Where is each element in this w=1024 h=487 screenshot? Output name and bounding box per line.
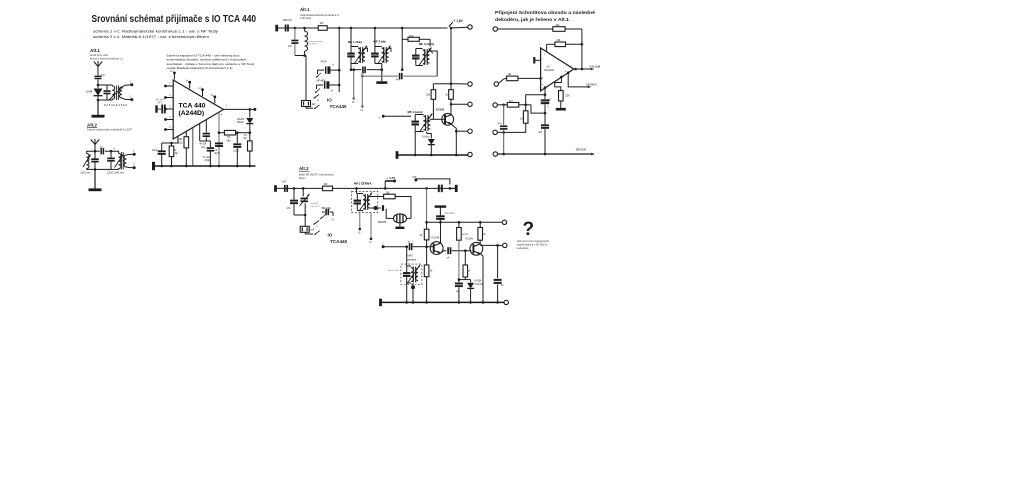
transformer TR1 core [117,86,119,101]
wire cap to node [97,80,100,87]
transistor Q1 KC508 [436,108,454,126]
0u5 branch [413,176,450,185]
svg-text:Alt.2: Alt.2 [87,123,97,128]
op-amp U2 triangle [541,48,574,91]
terminal T1 Alt1 [468,25,472,29]
Alt2 input bottom wire [294,214,307,217]
svg-text:Připojení Schmittova obvodu a: Připojení Schmittova obvodu a následně [495,10,595,15]
Alt2 ground rail [381,299,504,307]
svg-text:MC845/A: MC845/A [587,83,598,86]
svg-text:(4u7): (4u7) [214,153,220,155]
TR2 winding notes [81,172,125,175]
capacitor at U1 pin3 [156,100,165,114]
transformer TR1 secondary [120,85,132,100]
U1 top pin 12 [211,95,217,103]
svg-text:+ 4,5V: + 4,5V [387,176,396,180]
output right vertical [581,29,584,69]
terminal T5 Alt1 [468,152,472,156]
MF1c output dot [370,205,383,211]
transistor Q2 KC548 [430,237,443,255]
top loop wire over MF3 [401,28,430,71]
IF transformer MF3 cerny [412,42,434,66]
MF1 cerna label [354,180,372,185]
gray stub pin12 [360,75,363,112]
Alt.1 small note line2 [90,57,123,60]
terminal S2 [494,82,498,86]
svg-text:Alt.1: Alt.1 [300,7,310,12]
TCA440 note paragraph line2 [167,58,247,62]
Q2 emitter wire [441,251,447,253]
feedback resistor 15k [547,39,582,47]
ground A2 [89,188,102,191]
crystal X2 [300,215,315,234]
svg-text:Srovnání schémat přijímače s I: Srovnání schémat přijímače s IO TCA 440 [92,14,257,25]
svg-text:feritová: feritová [311,202,319,205]
MF2 bottom dot [411,283,415,302]
rail to terminal [451,26,468,29]
wire S3 right [497,104,507,107]
Q1 base wire [430,118,446,120]
filter ground [395,224,404,228]
capacitor tank2 [107,151,115,169]
wire cap2 left stub [315,85,320,93]
terminal A2T2 [498,243,507,247]
varicap Alt2 [300,188,321,215]
question note3 [517,247,530,250]
IF transformer MF1c [354,188,372,211]
U1 left pin 1 [164,84,173,88]
svg-text:KA206: KA206 [475,280,483,283]
svg-text:feritová anténa podle modelář: feritová anténa podle modelářské A 1/197… [87,129,133,132]
terminal A2T1 [502,220,506,224]
svg-text:(10k): (10k) [205,160,210,162]
terminal T2 Alt1 [457,82,472,86]
svg-text:1uF: 1uF [312,104,317,106]
svg-text:4n7: 4n7 [396,79,401,82]
cap MR100 Alt2 [320,208,334,222]
svg-text:455 kHz: 455 kHz [283,19,293,22]
question note2 [517,243,549,246]
noninv pin stub [542,84,547,96]
Q3 emitter down [480,254,483,303]
terminal S1 [493,27,497,31]
svg-text:IO: IO [547,65,550,68]
wire tank bottoms [95,168,111,170]
input terminal bar Alt1 [275,25,278,32]
U1 left pin 3 [164,107,173,111]
pin2 stub wire [382,244,408,249]
svg-text:IO: IO [328,232,333,237]
svg-text:47uF: 47uF [321,60,327,64]
capacitor MF cap2 [317,80,341,92]
wire resistors top [433,83,457,86]
svg-text:47p: 47p [288,45,293,48]
svg-text:MF 4 černý: MF 4 černý [408,110,423,114]
resistor 22k [555,76,570,101]
svg-text:4n-10n: 4n-10n [203,157,211,159]
Alt.2 big note1 [299,174,334,177]
IF transformer MF4 cerny [408,110,433,132]
input cap Alt2 [282,180,287,192]
Alt.1 big note1 [300,14,340,17]
Q2 base [427,244,434,253]
svg-text:9+7,5 mm 6+7,5 mm: 9+7,5 mm 6+7,5 mm [104,104,127,107]
supply drop wire [450,27,453,84]
Schmitt header line2 [495,17,569,22]
svg-text:KC84x: KC84x [466,237,474,240]
svg-text:Alt.2: Alt.2 [299,166,309,171]
pin arrow crystal2 [314,105,320,109]
MF2 transformer [388,247,420,284]
filter in wire [386,209,392,219]
pin arrows Alt2 [314,221,320,235]
svg-text:(B): (B) [244,137,247,140]
svg-text:s NF Tesly: s NF Tesly [300,17,312,20]
cap 44n antenna-like [435,207,456,223]
resistor R1 1k [169,142,178,166]
res bottom to S4 [497,123,525,134]
transformer TR2 secondary [124,154,134,168]
emitter resistor Q3 [463,251,471,280]
svg-text:455 kHz: 455 kHz [156,100,165,102]
series cap 1n [408,242,428,251]
svg-text:4k7: 4k7 [509,100,514,103]
pin15 stub Alt2 [358,213,361,235]
svg-text:feritovou anténu konstrukce L: feritovou anténu konstrukce L1 [90,57,123,60]
resistor 12k input [499,73,545,83]
svg-text:SFE455: SFE455 [378,221,387,224]
MF3 right wire [429,49,438,77]
resistor mid vertical [520,105,528,123]
resistor R2 10k [179,131,189,166]
svg-text:nezkoušejn: nezkoušejn [517,247,530,250]
subtitle bullet [86,34,87,38]
input shunt cap Alt1 [288,28,298,56]
svg-text:4k2: 4k2 [556,24,561,27]
terminal S5 [493,152,497,156]
svg-text:MFG: MFG [158,102,163,104]
input shunt cap Alt2 [287,188,299,215]
svg-text:ladí na 455: ladí na 455 [388,270,400,272]
wire input bottom [295,55,305,57]
svg-text:4u7: 4u7 [548,98,553,101]
wire resistor to filter [395,197,411,219]
wire antenna to cap [97,72,99,75]
diode D4 [467,280,483,303]
Alt.2 small note [87,129,133,132]
diode D1 1N48 [86,85,103,100]
antenna A1 [94,61,102,72]
terminal T4 Alt1 [456,129,472,133]
supply rail Alt1 [280,27,448,30]
svg-text:(1k): (1k) [174,152,178,155]
MF1 bottom wire [350,64,355,71]
terminal out1 A1 [130,81,133,87]
jog to 4u7 node [531,105,545,113]
Q3 collector resistor [478,222,487,244]
TR1 winding note [104,104,127,107]
antenna A2 [91,139,99,150]
wire U1 pin10 [200,124,207,141]
svg-text:KA2xx: KA2xx [423,136,431,139]
svg-text:100k: 100k [409,36,415,38]
Q1 collector wire [450,104,452,114]
wire pin6 to left [524,95,545,106]
Alt.1 small note line1 [90,54,109,57]
U1 left pin 5 [164,127,173,131]
svg-text:22K: 22K [565,95,570,98]
svg-text:47uF,16: 47uF,16 [475,284,484,286]
input coil Alt1 [303,28,323,57]
pin2 stub with bar [534,57,543,63]
wire drop x339 [338,28,340,92]
resistor R10 on rail [318,23,327,30]
svg-text:KC548: KC548 [432,237,440,240]
svg-text:1uF: 1uF [310,230,315,232]
capacitor C10 10uF [152,143,166,166]
coupling cap MF1-MF2 [351,66,382,75]
node under emitter res [458,278,471,281]
svg-text:10n: 10n [538,131,543,134]
svg-text:S/N:26dB: S/N:26dB [590,66,601,69]
wire 47uF left [316,70,321,77]
svg-text:filtrem: filtrem [299,177,306,180]
svg-text:2x12 mm: 2x12 mm [81,172,91,175]
resistor S3 [507,100,531,107]
U1 output wire pin7 [224,105,257,111]
coil L2 tank2 [111,148,121,170]
opamp output node [570,65,586,70]
svg-text:ant. 4x7?: ant. 4x7? [311,205,321,208]
svg-text:44n-100n: 44n-100n [445,213,455,215]
resistor rail Alt2 [323,184,333,191]
wire node to ground A1 [97,100,99,115]
capacitor C13 on pin9 wire [214,143,223,155]
svg-text:TCA440: TCA440 [330,239,348,244]
Alt1 ground rail [397,151,468,159]
terminal S3 [493,103,497,107]
diode D3 KA206 [423,136,435,155]
right cap to rail [494,245,505,302]
svg-text:GA201: GA201 [237,118,245,121]
capacitor C14 [233,133,241,166]
svg-text:MAA435: MAA435 [544,69,554,72]
subtitle line 2 [93,35,209,39]
cap to rail [455,280,463,303]
U1 top pin 16 [170,71,176,79]
crystal X1 455 [302,56,317,109]
svg-text:MF2: MF2 [408,254,414,258]
svg-text:dle RK L1: dle RK L1 [309,44,319,46]
terminal out2 A2 [133,163,136,169]
resistor x5k [370,192,395,199]
Alt.1 big note2 [300,17,312,20]
svg-text:10/100: 10/100 [462,234,469,236]
MF1 cerna dashed box [352,191,378,212]
IF transformer MF1 zluty [347,28,367,64]
feedback stub to opamp [544,44,546,56]
MF4 pin7 wire [379,115,411,120]
pin arrow crystal [314,95,320,102]
capacitor C2 shunt [97,85,111,101]
transformer TR2 core [121,152,123,170]
output2 wire [565,71,584,87]
supply label +1.8V [449,19,464,27]
output arrow 1 [587,66,601,71]
svg-text:47p: 47p [101,74,106,77]
svg-text:MF-460k: MF-460k [317,80,327,82]
svg-text:TCA 440: TCA 440 [179,103,206,110]
IO TCA440 label Alt2 [328,232,348,244]
Q1 emitter wire [452,124,458,155]
terminal A2T3 [504,300,508,304]
resistor R12 1k [445,84,453,106]
supply stub +4.5V [385,176,396,188]
terminal out2 A1 [130,95,133,101]
capacitor C11 [200,120,211,149]
svg-text:IO: IO [327,98,332,103]
svg-text:MF1 ČERNÁ: MF1 ČERNÁ [354,180,372,185]
transistor Q3 KC84x [466,237,483,255]
diode D2 GA201 [237,109,253,132]
U1 left pin 4 [164,117,173,121]
subtitle line 1 [93,29,218,33]
top wire with resistor 4k2 [498,24,582,32]
question mark [523,219,535,240]
svg-text:MF 1 žlutý: MF 1 žlutý [348,40,362,44]
svg-text:·: · [86,34,87,38]
mid horiz wire Alt2 [427,221,503,224]
22k ground [556,101,566,109]
series cap x4 [447,247,472,259]
TCA440 note paragraph line1 [167,54,240,58]
capacitor C1 series [95,74,106,79]
svg-text:?: ? [523,219,535,240]
MF2 label [407,254,417,262]
svg-text:MF 3 černý: MF 3 černý [419,42,434,46]
left vertical with cap [498,105,507,154]
U1 top pin 14 [185,80,191,88]
Alt.1 big label [300,7,310,12]
svg-text:4k-10k: 4k-10k [200,144,208,146]
svg-text:1N48: 1N48 [86,90,93,94]
MF4 bottom wires [415,132,431,156]
Schmitt bottom rail arrow [498,149,594,156]
L2 trimmer arrow [115,154,124,168]
Alt.2 big label [299,166,310,171]
svg-text:schéma 2 v č. Materiál A 1/197: schéma 2 v č. Materiál A 1/1977 - var. s… [93,35,209,39]
Alt2 rail [276,187,457,190]
svg-text:schéma 1 v č. Radioamatérské k: schéma 1 v č. Radioamatérské konstrukce … [93,29,218,33]
wire U1 pin9 gray [219,112,223,166]
svg-text:+: + [548,105,550,109]
svg-text:podle Radioamatérských konstru: podle Radioamatérských konstrukcí L1) [167,66,233,70]
svg-text:(střední): (střední) [407,257,417,261]
svg-text:(9k): (9k) [227,139,231,142]
cap 10n [538,113,549,154]
svg-text:(10u): (10u) [234,150,240,152]
svg-text:+ 1,8V: + 1,8V [454,19,464,23]
MF2 bottom ground [376,64,387,83]
svg-text:+: + [332,63,334,67]
mid resistor col [457,222,469,279]
svg-text:(4n): (4n) [201,147,205,149]
IO TCA440 label Alt1 [327,98,347,110]
wire to ground A2 [94,169,96,188]
input terminal bar Alt2 [274,185,277,192]
svg-text:feritová anténa: feritová anténa [309,40,324,43]
capacitor 47uF [318,60,341,74]
filter out wire [408,217,411,219]
svg-text:(A244D): (A244D) [179,110,205,117]
resistor R3 77k horizontal [218,130,251,142]
resistor R4 4k5 [244,133,253,166]
svg-text:12x12 3x42 mm: 12x12 3x42 mm [107,172,124,175]
resistor 4k base [420,222,429,246]
svg-text:u47: u47 [282,180,287,183]
transformer TR1 primary [98,85,115,100]
Q3 collector node wire [480,244,499,247]
svg-text:TCA440: TCA440 [330,104,348,109]
svg-text:Alt.1: Alt.1 [90,48,100,53]
capacitor C12 [203,141,214,166]
input coupling cap Alt1 [277,19,295,31]
svg-text:KC508: KC508 [436,108,445,112]
gray stub pin15 [352,68,355,104]
U1 left pin 2 [164,95,173,99]
op-amp style block U1 TCA440 triangle [173,80,223,139]
coil L1 tank1 [87,151,95,169]
svg-text:MR-100p: MR-100p [322,208,332,210]
MF2 left bottom wire [406,283,408,302]
cap 4u7 [541,95,552,115]
U1 top pin 13 [198,88,204,96]
TR1 trimmer arrow [109,87,123,101]
long wire 4n7 [362,73,437,82]
Alt.2 small label [87,123,97,128]
terminal S4 [493,130,497,134]
output arrow 2 [584,83,597,88]
TCA440 rail junctions [160,165,251,168]
wire U1 pin8 to rail [192,128,194,166]
drop wire x427 [425,188,428,223]
TCA440 note paragraph line4 [167,66,233,70]
svg-text:dekodéru, jak je řešeno v Alt.: dekodéru, jak je řešeno v Alt.1 [495,17,569,22]
svg-text:MF 2 bílý: MF 2 bílý [374,40,387,44]
terminal T3 Alt1 [451,102,472,106]
ground A1 [92,115,105,118]
Alt.1 small label [90,48,100,53]
wire antenna node A2 [94,150,97,153]
svg-text:(1k): (1k) [179,141,183,144]
rail cap Alt2 [439,185,442,193]
svg-text:47p: 47p [287,207,292,210]
IF transformer MF2 bily [371,28,391,64]
ceramic filter F455 [378,214,409,225]
TCA440 ground rail [154,162,256,170]
MF2 dashed box [401,264,422,284]
Q2 collector up [440,222,442,243]
base divider lower resistor [424,247,433,303]
capacitor C coupling [95,146,111,155]
pin13 stub Alt2 [369,213,372,244]
question note1 [517,240,550,243]
svg-text:500Pa: 500Pa [237,122,244,124]
capacitor tank1 [91,151,99,171]
title text [92,14,257,25]
Schmitt header line1 [495,10,595,15]
svg-text:10uF: 10uF [152,149,158,152]
